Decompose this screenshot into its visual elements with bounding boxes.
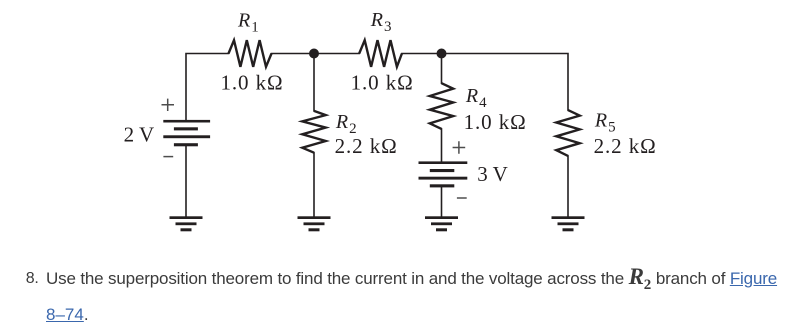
resistor R2 xyxy=(302,111,325,153)
svg-text:R1: R1 xyxy=(237,10,259,36)
battery V1 plus sign xyxy=(162,99,175,111)
problem number 8 xyxy=(26,270,39,288)
wire node A down to R2 xyxy=(313,54,315,111)
resistor R5 xyxy=(556,110,579,156)
node A junction dot xyxy=(309,49,319,59)
resistor R1 xyxy=(229,40,272,67)
wire battery V1 to ground 1 xyxy=(185,146,187,216)
svg-text:R2: R2 xyxy=(335,111,357,137)
wire R4 to battery V2 xyxy=(441,129,443,162)
wire R2 to ground 2 xyxy=(313,153,315,217)
problem text line 2 xyxy=(46,305,89,325)
svg-text:2.2 kΩ: 2.2 kΩ xyxy=(335,134,398,158)
svg-text:1.0 kΩ: 1.0 kΩ xyxy=(464,110,527,134)
ground 1 xyxy=(170,216,203,231)
wire node B down to R4 xyxy=(441,54,443,84)
wire node B to right corner down to R5 xyxy=(442,54,569,111)
problem text line 1 xyxy=(46,264,777,294)
battery V2 minus sign xyxy=(457,197,467,199)
resistor R3 xyxy=(359,40,402,67)
battery V2 plus sign xyxy=(453,141,466,153)
svg-text:1.0 kΩ: 1.0 kΩ xyxy=(351,71,414,95)
resistor R4 xyxy=(430,83,453,129)
ground 4 xyxy=(552,216,585,231)
wire node A to R3 xyxy=(314,53,359,55)
svg-text:R4: R4 xyxy=(465,85,487,111)
svg-text:R5: R5 xyxy=(594,110,616,136)
wire R5 to ground 4 xyxy=(567,156,569,216)
wire R1 to node A xyxy=(272,53,315,55)
svg-text:1.0 kΩ: 1.0 kΩ xyxy=(221,71,284,95)
wire battery V2 to ground 3 xyxy=(441,187,443,216)
ground 2 xyxy=(298,216,331,231)
wire left top corner to R1 xyxy=(186,54,229,121)
svg-text:R3: R3 xyxy=(370,9,392,35)
svg-text:2 V: 2 V xyxy=(124,123,155,147)
battery V1 (2 V) xyxy=(163,120,210,146)
ground 3 xyxy=(425,216,458,231)
svg-text:3 V: 3 V xyxy=(477,162,508,186)
node B junction dot xyxy=(437,49,447,59)
battery V2 (3 V) xyxy=(419,161,468,187)
svg-text:2.2 kΩ: 2.2 kΩ xyxy=(594,134,657,158)
battery V1 minus sign xyxy=(163,156,173,158)
wire R3 to node B xyxy=(402,53,442,55)
